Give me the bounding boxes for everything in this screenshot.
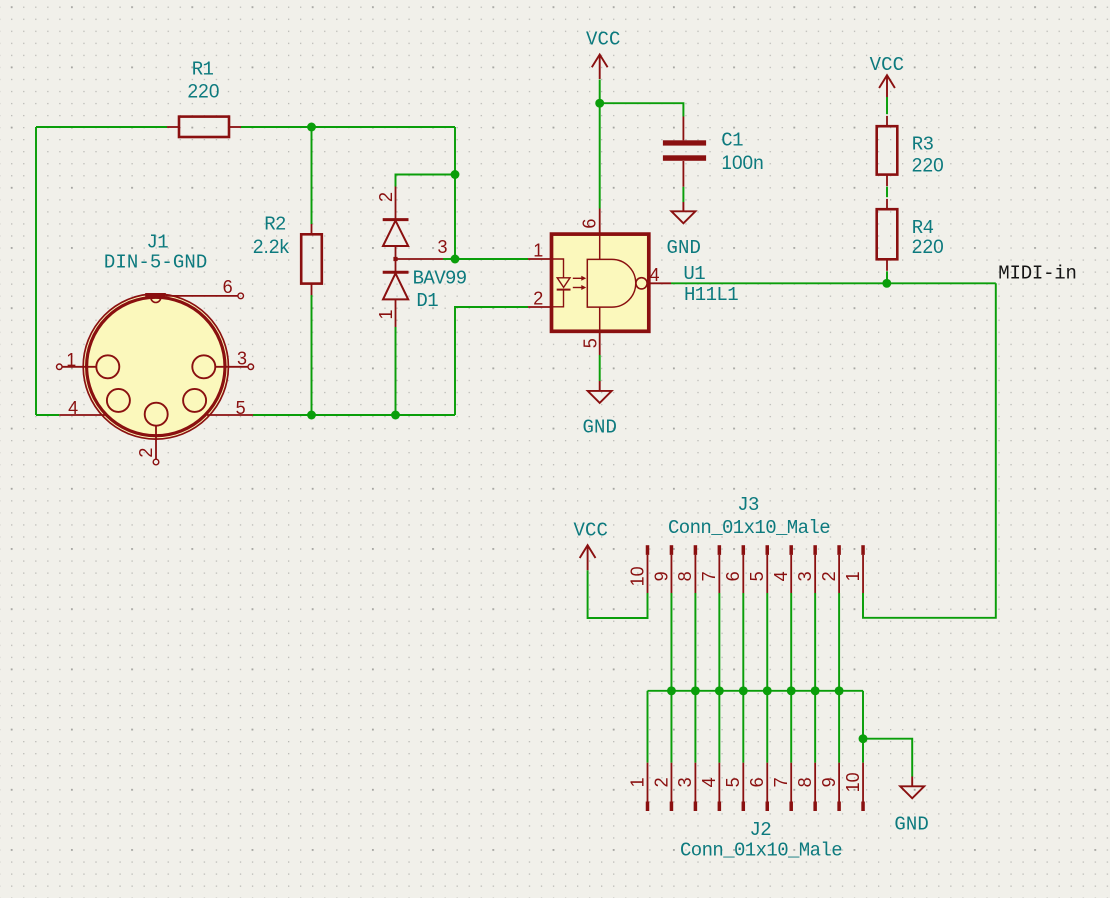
wire trunk vertical: [454, 127, 456, 259]
wire to D1 pin2: [396, 175, 456, 187]
wire bus to J2 pin1: [647, 691, 649, 763]
wire left vertical: [35, 127, 37, 415]
wire VCC to U1 pin6: [599, 80, 601, 209]
D1 pin numbers: [376, 192, 448, 320]
svg-text:J1: J1: [146, 231, 168, 253]
svg-text:2: 2: [376, 192, 396, 202]
svg-text:5: 5: [723, 777, 743, 787]
wire bus to J2 pin9: [838, 691, 840, 763]
svg-text:GND: GND: [894, 814, 929, 836]
svg-text:5: 5: [236, 398, 246, 418]
wire bus to J2 pin5: [742, 691, 744, 763]
svg-text:VCC: VCC: [870, 54, 905, 76]
svg-text:R3: R3: [912, 134, 934, 156]
svg-text:9: 9: [651, 571, 671, 581]
J1 pin numbers: [66, 277, 247, 458]
svg-text:2: 2: [136, 448, 156, 458]
svg-text:3: 3: [437, 237, 447, 257]
wire D1 pin3 to node: [443, 258, 455, 260]
resistor R4: [877, 199, 898, 271]
connector J1 DIN-5-GND: [57, 293, 254, 465]
svg-text:J2: J2: [749, 819, 771, 841]
svg-text:10: 10: [627, 566, 647, 586]
wire bus horizontal: [648, 690, 864, 692]
svg-text:2: 2: [819, 571, 839, 581]
junction bus node 5: [763, 686, 772, 695]
wire VCC to J3 pin10: [588, 570, 648, 618]
resistor R2: [301, 224, 322, 295]
R3 labels: [912, 134, 944, 177]
wire bottom horizontal: [253, 414, 455, 416]
svg-text:C1: C1: [721, 129, 743, 151]
svg-text:5: 5: [580, 338, 600, 348]
power VCC symbol top: [592, 55, 608, 80]
junction D1 pin2 node: [451, 170, 460, 179]
svg-text:6: 6: [747, 777, 767, 787]
wire bus to J2 pin4: [718, 691, 720, 763]
R1 labels: [187, 59, 219, 103]
D1 labels: [413, 268, 467, 313]
resistor R3: [877, 116, 898, 186]
wire J1 pin1-area to R1: [36, 126, 167, 128]
junction D1 pin1 node: [391, 411, 400, 420]
svg-text:DIN-5-GND: DIN-5-GND: [104, 252, 208, 274]
connector J2 Conn_01x10_Male: [646, 763, 865, 811]
svg-text:1: 1: [843, 571, 863, 581]
svg-text:1: 1: [66, 350, 76, 370]
wire D1 pin1 down: [395, 327, 397, 415]
svg-text:U1: U1: [683, 263, 705, 285]
wire to J1 pin4: [36, 414, 59, 416]
junction bus node 2: [691, 686, 700, 695]
wire R2 bottom: [311, 295, 313, 415]
J2 labels: [680, 819, 842, 861]
svg-text:R1: R1: [192, 59, 214, 81]
svg-text:2: 2: [651, 777, 671, 787]
svg-text:GND: GND: [582, 416, 617, 438]
junction VCC/C1 node: [595, 99, 604, 108]
capacitor C1: [663, 117, 706, 187]
power GND symbol C1: [671, 202, 695, 223]
junction bus node 4: [739, 686, 748, 695]
J3 pin numbers: [627, 566, 863, 586]
wire J2 pin10 to GND: [863, 739, 912, 777]
resistor R1: [167, 117, 241, 137]
svg-text:3: 3: [795, 571, 815, 581]
op-amp/optocoupler U1 H11L1: [528, 209, 671, 356]
wire R4 to node: [886, 271, 888, 283]
svg-text:Conn_01x10_Male: Conn_01x10_Male: [680, 840, 842, 862]
wire R3 to R4: [886, 187, 888, 198]
svg-text:8: 8: [795, 777, 815, 787]
wire J3 pin3 down: [814, 593, 816, 691]
wire node to U1 pin1: [455, 258, 528, 260]
J2 pin numbers: [627, 772, 863, 792]
svg-text:4: 4: [68, 398, 78, 418]
svg-text:4: 4: [649, 265, 659, 285]
J3 labels: [668, 494, 830, 539]
wire J3 pin2 down: [838, 593, 840, 691]
wire U1 pin5 to GND: [599, 355, 601, 381]
wire J3 pin7 down: [718, 593, 720, 691]
junction D1 pin3 node: [451, 255, 460, 264]
svg-text:VCC: VCC: [574, 520, 609, 542]
svg-text:MIDI-in: MIDI-in: [998, 263, 1076, 285]
svg-text:1: 1: [627, 777, 647, 787]
svg-text:6: 6: [223, 277, 233, 297]
svg-text:9: 9: [819, 777, 839, 787]
junction R2 bottom node: [307, 411, 316, 420]
svg-text:220: 220: [187, 81, 219, 102]
C1 labels: [721, 129, 763, 174]
svg-text:8: 8: [675, 571, 695, 581]
svg-text:7: 7: [771, 777, 791, 787]
svg-text:R4: R4: [912, 217, 934, 239]
wire J3 pin8 down: [694, 593, 696, 691]
svg-text:1: 1: [533, 241, 543, 261]
junction bus node 8: [835, 686, 844, 695]
svg-text:5: 5: [747, 571, 767, 581]
junction bus node 7: [811, 686, 820, 695]
junction bus node 1: [667, 686, 676, 695]
wire J3 pin6 down: [742, 593, 744, 691]
wire R1 to vertical trunk: [241, 126, 455, 128]
wire to R2 top: [311, 127, 313, 224]
junction J2 pin10/GND node: [859, 734, 868, 743]
wire bus to J2 pin2: [670, 691, 672, 763]
svg-text:D1: D1: [416, 290, 438, 312]
svg-text:4: 4: [771, 571, 791, 581]
junction bus node 3: [715, 686, 724, 695]
svg-text:3: 3: [675, 777, 695, 787]
R2 labels: [253, 213, 290, 258]
wire MIDI-in to J3 pin1: [863, 283, 996, 618]
svg-text:VCC: VCC: [586, 28, 621, 50]
junction R4/MIDI-in node: [882, 279, 891, 288]
wire bus to J2 pin3: [694, 691, 696, 763]
power VCC symbol J3: [580, 545, 596, 570]
svg-text:2: 2: [533, 289, 543, 309]
wire J3 pin4 down: [790, 593, 792, 691]
svg-text:220: 220: [912, 237, 944, 258]
U1 labels: [683, 263, 738, 306]
svg-text:GND: GND: [666, 237, 701, 259]
wire VCC to C1: [600, 103, 684, 116]
wire U1 pin4 MIDI-in net: [671, 282, 996, 284]
svg-text:1: 1: [376, 309, 396, 319]
wire J3 pin9 down: [670, 593, 672, 691]
svg-text:7: 7: [699, 571, 719, 581]
wire bus to J2 pin10: [862, 691, 864, 763]
svg-text:Conn_01x10_Male: Conn_01x10_Male: [668, 517, 830, 539]
wire C1 to GND: [682, 187, 684, 202]
svg-text:10: 10: [843, 772, 863, 792]
svg-text:100n: 100n: [721, 153, 763, 174]
junction bus node 6: [787, 686, 796, 695]
U1 pin numbers: [533, 219, 659, 349]
svg-text:H11L1: H11L1: [684, 284, 738, 306]
svg-text:4: 4: [699, 777, 719, 787]
wire U1 pin2 down: [455, 307, 528, 415]
svg-text:220: 220: [912, 155, 944, 176]
svg-text:BAV99: BAV99: [413, 268, 467, 290]
wire bus to J2 pin8: [814, 691, 816, 763]
wire VCC to R3: [886, 97, 888, 114]
J1 labels: [104, 231, 208, 273]
connector J3 Conn_01x10_Male: [646, 545, 865, 593]
wire bus to J2 pin6: [766, 691, 768, 763]
power GND symbol J2: [900, 777, 924, 799]
junction R1/R2 node: [307, 123, 316, 132]
svg-text:R2: R2: [264, 213, 286, 235]
svg-text:6: 6: [723, 571, 743, 581]
wire bus to J2 pin7: [790, 691, 792, 763]
svg-text:J3: J3: [737, 494, 759, 516]
power VCC symbol R3: [879, 75, 895, 97]
power GND symbol U1: [588, 381, 612, 403]
svg-text:6: 6: [579, 219, 599, 229]
svg-text:3: 3: [237, 349, 247, 369]
wire J3 pin5 down: [766, 593, 768, 691]
R4 labels: [912, 217, 944, 258]
diode D1 BAV99: [383, 187, 443, 328]
svg-text:2.2k: 2.2k: [253, 237, 290, 258]
